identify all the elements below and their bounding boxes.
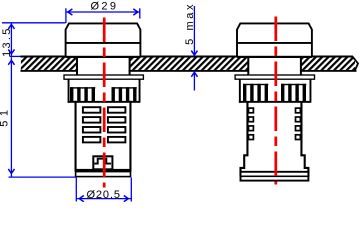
right view right wing step xyxy=(300,155,308,176)
right view flange box xyxy=(241,172,309,181)
left view vent slot row1 right xyxy=(108,107,126,113)
right view nut bottom line xyxy=(239,101,311,103)
right view flange mid line xyxy=(240,176,310,178)
right view body left wall xyxy=(246,101,248,155)
svg-text:13.5: 13.5 xyxy=(1,26,13,57)
dimension 13.5 xyxy=(2,23,66,58)
left view vent slot row3 right xyxy=(108,127,126,133)
panel bottom edge line middle segment xyxy=(129,70,249,72)
dimension 5 max xyxy=(193,6,195,91)
panel hatch left segment xyxy=(21,58,77,70)
dimension Ø29 xyxy=(66,8,140,23)
panel hatch middle segment xyxy=(130,58,248,70)
left view body right wall xyxy=(129,101,131,171)
left view tube left edge in panel hole xyxy=(76,58,78,75)
left view dome bottom line xyxy=(66,56,141,58)
left view flange xyxy=(76,172,131,177)
left view lens mid line xyxy=(66,42,141,44)
left view vent slot row1 left xyxy=(83,107,101,113)
right view thread tooth right 4 xyxy=(296,135,301,140)
left view nut band xyxy=(64,75,143,79)
right view thread tooth left 1 xyxy=(249,108,254,113)
left view vent slot row2 right xyxy=(108,117,126,123)
left view vent slot row3 left xyxy=(83,127,101,133)
svg-text:Ø20.5: Ø20.5 xyxy=(86,189,120,201)
right view nut comb right group xyxy=(281,84,306,102)
left view nut bottom line xyxy=(68,101,140,103)
right view dome bottom line xyxy=(237,56,312,58)
left view nut comb left group xyxy=(70,87,95,102)
left view vent slot row2 left xyxy=(83,117,101,123)
svg-text:5 max: 5 max xyxy=(184,2,196,45)
right view red centerline xyxy=(274,17,277,185)
left view nut left wall xyxy=(68,80,70,103)
right view body right wall xyxy=(300,101,302,155)
left view body bottom thick line xyxy=(75,169,132,172)
right view thread tooth right 1 xyxy=(296,108,301,113)
right view thread tooth right 3 xyxy=(296,126,301,131)
right view thread tooth left 2 xyxy=(249,117,254,122)
left view body left wall xyxy=(75,101,77,171)
panel bottom edge line right segment xyxy=(301,70,357,72)
svg-text:Ø29: Ø29 xyxy=(91,0,119,12)
left view vent slot row4 right xyxy=(108,137,126,143)
left view nut right wall xyxy=(139,80,141,103)
right view tube left edge in panel hole xyxy=(247,58,249,75)
right view lens mid line xyxy=(237,42,312,44)
right view nut band xyxy=(235,75,314,79)
panel hatch right segment xyxy=(301,58,355,70)
left view keyway box xyxy=(93,156,112,169)
right view tube right edge in panel hole xyxy=(300,58,302,75)
right view left wing step xyxy=(241,155,249,176)
panel bottom edge line left segment xyxy=(21,70,78,72)
right view thread tooth right 2 xyxy=(296,117,301,122)
panel top edge line xyxy=(21,56,354,58)
right view thread tooth left 4 xyxy=(249,135,254,140)
right view thread tooth left 3 xyxy=(249,126,254,131)
left view lens dome xyxy=(66,23,141,57)
left view nut comb right group xyxy=(112,87,137,102)
dimension 51 xyxy=(9,58,77,178)
left view keyway step xyxy=(94,159,111,164)
panel right break edge xyxy=(353,57,359,72)
left view tube right edge in panel hole xyxy=(129,58,131,75)
right view nut right wall xyxy=(310,80,312,103)
dimension Ø20.5 xyxy=(76,178,131,202)
right view lens dome xyxy=(237,23,312,57)
right view nut left wall xyxy=(239,80,241,103)
right view nut comb left group xyxy=(243,84,268,102)
left view vent slot row4 left xyxy=(83,137,101,143)
left view red centerline xyxy=(103,18,106,188)
svg-text:51: 51 xyxy=(0,106,10,127)
